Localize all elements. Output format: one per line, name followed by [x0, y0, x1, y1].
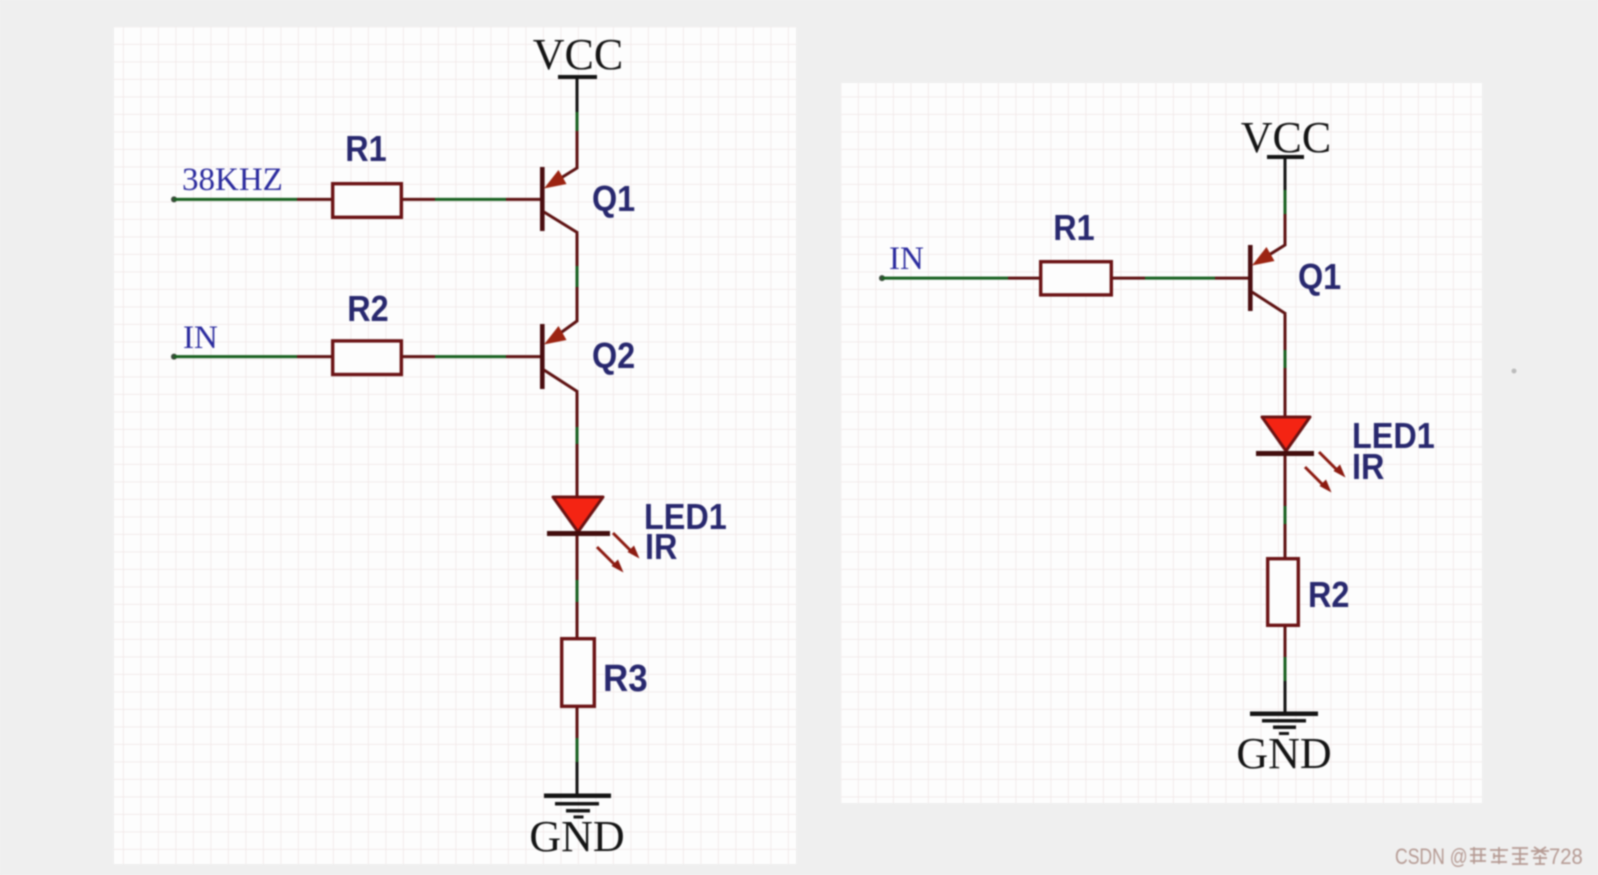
svg-text:Q1: Q1: [1298, 257, 1341, 297]
svg-text:IN: IN: [183, 320, 218, 356]
svg-text:R1: R1: [1053, 208, 1094, 248]
svg-text:38KHZ: 38KHZ: [182, 162, 283, 198]
svg-text:IR: IR: [1352, 447, 1385, 487]
svg-text:VCC: VCC: [1241, 113, 1331, 162]
svg-text:Q2: Q2: [592, 336, 635, 376]
svg-text:GND: GND: [529, 812, 624, 861]
svg-text:R2: R2: [1308, 575, 1349, 615]
svg-text:728: 728: [1549, 845, 1583, 869]
svg-text:Q1: Q1: [592, 179, 635, 219]
svg-text:IN: IN: [889, 241, 924, 277]
svg-text:GND: GND: [1236, 729, 1331, 778]
svg-text:IR: IR: [645, 527, 678, 567]
svg-text:R2: R2: [347, 289, 388, 329]
svg-text:VCC: VCC: [533, 30, 623, 79]
svg-text:R1: R1: [345, 129, 386, 169]
svg-text:R3: R3: [603, 657, 648, 700]
svg-text:CSDN @: CSDN @: [1395, 845, 1468, 869]
